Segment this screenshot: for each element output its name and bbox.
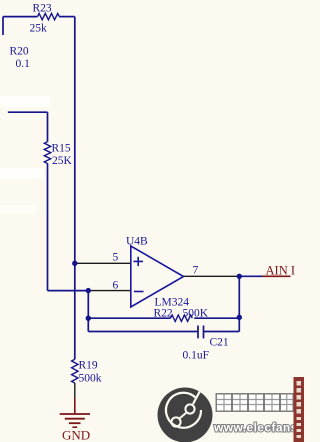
watermark logo connector <box>180 413 187 419</box>
wire: R23 to top corner <box>59 16 75 18</box>
wire: R22 row left segment <box>88 317 170 319</box>
svg-text:www.elecfans.com: www.elecfans.com <box>213 421 304 435</box>
wire: feedback left vertical <box>87 291 89 332</box>
svg-text:U4B: U4B <box>126 236 148 248</box>
wire: second horizontal from left edge <box>8 111 48 113</box>
wire: R22 row right segment <box>194 317 239 319</box>
svg-text:AIN I: AIN I <box>266 264 296 278</box>
scan artifact band 3 <box>0 205 36 214</box>
watermark right red strip <box>294 377 305 442</box>
svg-text:R20: R20 <box>10 46 29 58</box>
svg-text:500k: 500k <box>79 373 102 385</box>
resistor R19 <box>72 359 78 383</box>
watermark char 5 <box>280 393 295 412</box>
svg-text:GND: GND <box>62 428 90 442</box>
op-amp plus sign <box>134 257 144 266</box>
wire: C21 row right segment <box>204 331 240 333</box>
wire: left edge vertical stub <box>2 17 4 35</box>
node: output junction <box>237 274 242 279</box>
node: junction R22 row left <box>86 316 91 321</box>
ground bar 1 <box>60 413 90 415</box>
op-amp U4B triangle <box>131 246 184 307</box>
resistor R15 <box>44 142 50 164</box>
node: junction R22 row right <box>237 315 242 320</box>
wire: pin 5 input wire (black) <box>75 262 131 264</box>
wire: output to port (blue) <box>239 275 262 277</box>
node: junction at feedback tap <box>86 288 91 293</box>
ground stem <box>74 398 76 414</box>
watermark logo small circle lower <box>171 417 180 426</box>
resistor R23 <box>38 13 60 19</box>
resistor R22 <box>171 315 193 321</box>
watermark char 3 <box>248 393 265 412</box>
watermark logo small circle upper <box>185 404 194 413</box>
svg-text:5: 5 <box>113 252 119 264</box>
wire: below R19 (black) <box>74 383 76 400</box>
scan artifact band 2 <box>0 168 44 179</box>
watermark char 1 <box>216 393 233 412</box>
svg-text:0.1: 0.1 <box>16 58 31 70</box>
scan artifact band 1 <box>0 96 50 107</box>
wire: pin 6 input wire (black) <box>88 290 131 292</box>
wire: top-left horizontal to R23 <box>3 16 38 18</box>
svg-text:0.1uF: 0.1uF <box>183 350 210 362</box>
watermark logo stem <box>193 391 200 404</box>
wire: vertical from corner down to R15 <box>47 112 49 142</box>
svg-text:500K: 500K <box>183 308 209 320</box>
svg-text:6: 6 <box>113 280 119 292</box>
ground bar 2 <box>65 418 85 420</box>
watermark dark disc <box>158 388 213 442</box>
capacitor C21 <box>198 326 204 339</box>
svg-text:R15: R15 <box>52 143 71 155</box>
watermark logo ring <box>166 393 201 428</box>
svg-text:R19: R19 <box>79 360 98 372</box>
op-amp minus sign <box>134 291 144 293</box>
wire: long vertical bus from R23 corner down to R19 <box>74 17 76 360</box>
wire: C21 row left segment <box>88 331 198 333</box>
ground bar 4 <box>72 426 77 428</box>
node: junction on bus at pin5 <box>72 261 77 266</box>
svg-text:R22: R22 <box>154 308 173 320</box>
svg-text:25k: 25k <box>30 23 48 35</box>
svg-text:C21: C21 <box>210 337 229 349</box>
watermark char 4 <box>264 393 281 412</box>
wire: right vertical joining rows to output <box>238 276 240 331</box>
wire: port segment (maroon) <box>262 275 291 277</box>
svg-text:25K: 25K <box>52 155 73 167</box>
watermark char 2 <box>232 393 249 412</box>
svg-text:R23: R23 <box>33 3 52 15</box>
ground bar 3 <box>69 422 81 424</box>
wire: pin 6 row blue part <box>48 290 89 292</box>
watermark strip vertical text <box>297 381 302 438</box>
wire: output pin 7 (black) <box>184 275 240 277</box>
wire: vertical from R15 down to pin6 corner <box>47 163 49 290</box>
svg-text:7: 7 <box>193 265 199 277</box>
